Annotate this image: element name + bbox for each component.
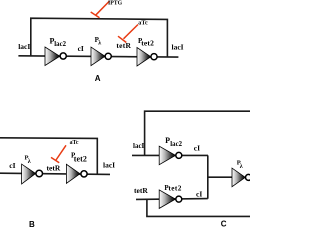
svg-text:aTc: aTc [138, 20, 148, 27]
svg-text:tetR: tetR [47, 164, 61, 173]
svg-text:cI: cI [78, 44, 84, 53]
svg-text:aTc: aTc [70, 140, 79, 146]
svg-text:tetR: tetR [116, 41, 131, 50]
svg-text:lacI: lacI [133, 142, 145, 150]
svg-text:lac2: lac2 [54, 41, 66, 48]
svg-text:cI: cI [194, 144, 200, 153]
svg-text:tet2: tet2 [74, 154, 87, 163]
svg-text:λ: λ [28, 159, 31, 165]
svg-text:lac2: lac2 [170, 141, 182, 148]
svg-text:lacI: lacI [18, 42, 30, 51]
svg-text:C: C [221, 219, 227, 228]
svg-text:cI: cI [9, 161, 15, 170]
svg-text:cI: cI [196, 189, 202, 198]
svg-text:λ: λ [240, 164, 243, 170]
svg-text:lacI: lacI [172, 43, 184, 52]
svg-text:IPTG: IPTG [108, 0, 123, 6]
svg-text:tetR: tetR [134, 186, 148, 195]
svg-text:tet2: tet2 [168, 183, 181, 192]
svg-text:tet2: tet2 [141, 38, 154, 47]
svg-text:A: A [95, 74, 101, 83]
svg-text:B: B [29, 220, 35, 229]
svg-text:lacI: lacI [103, 161, 115, 170]
svg-text:λ: λ [98, 41, 101, 47]
